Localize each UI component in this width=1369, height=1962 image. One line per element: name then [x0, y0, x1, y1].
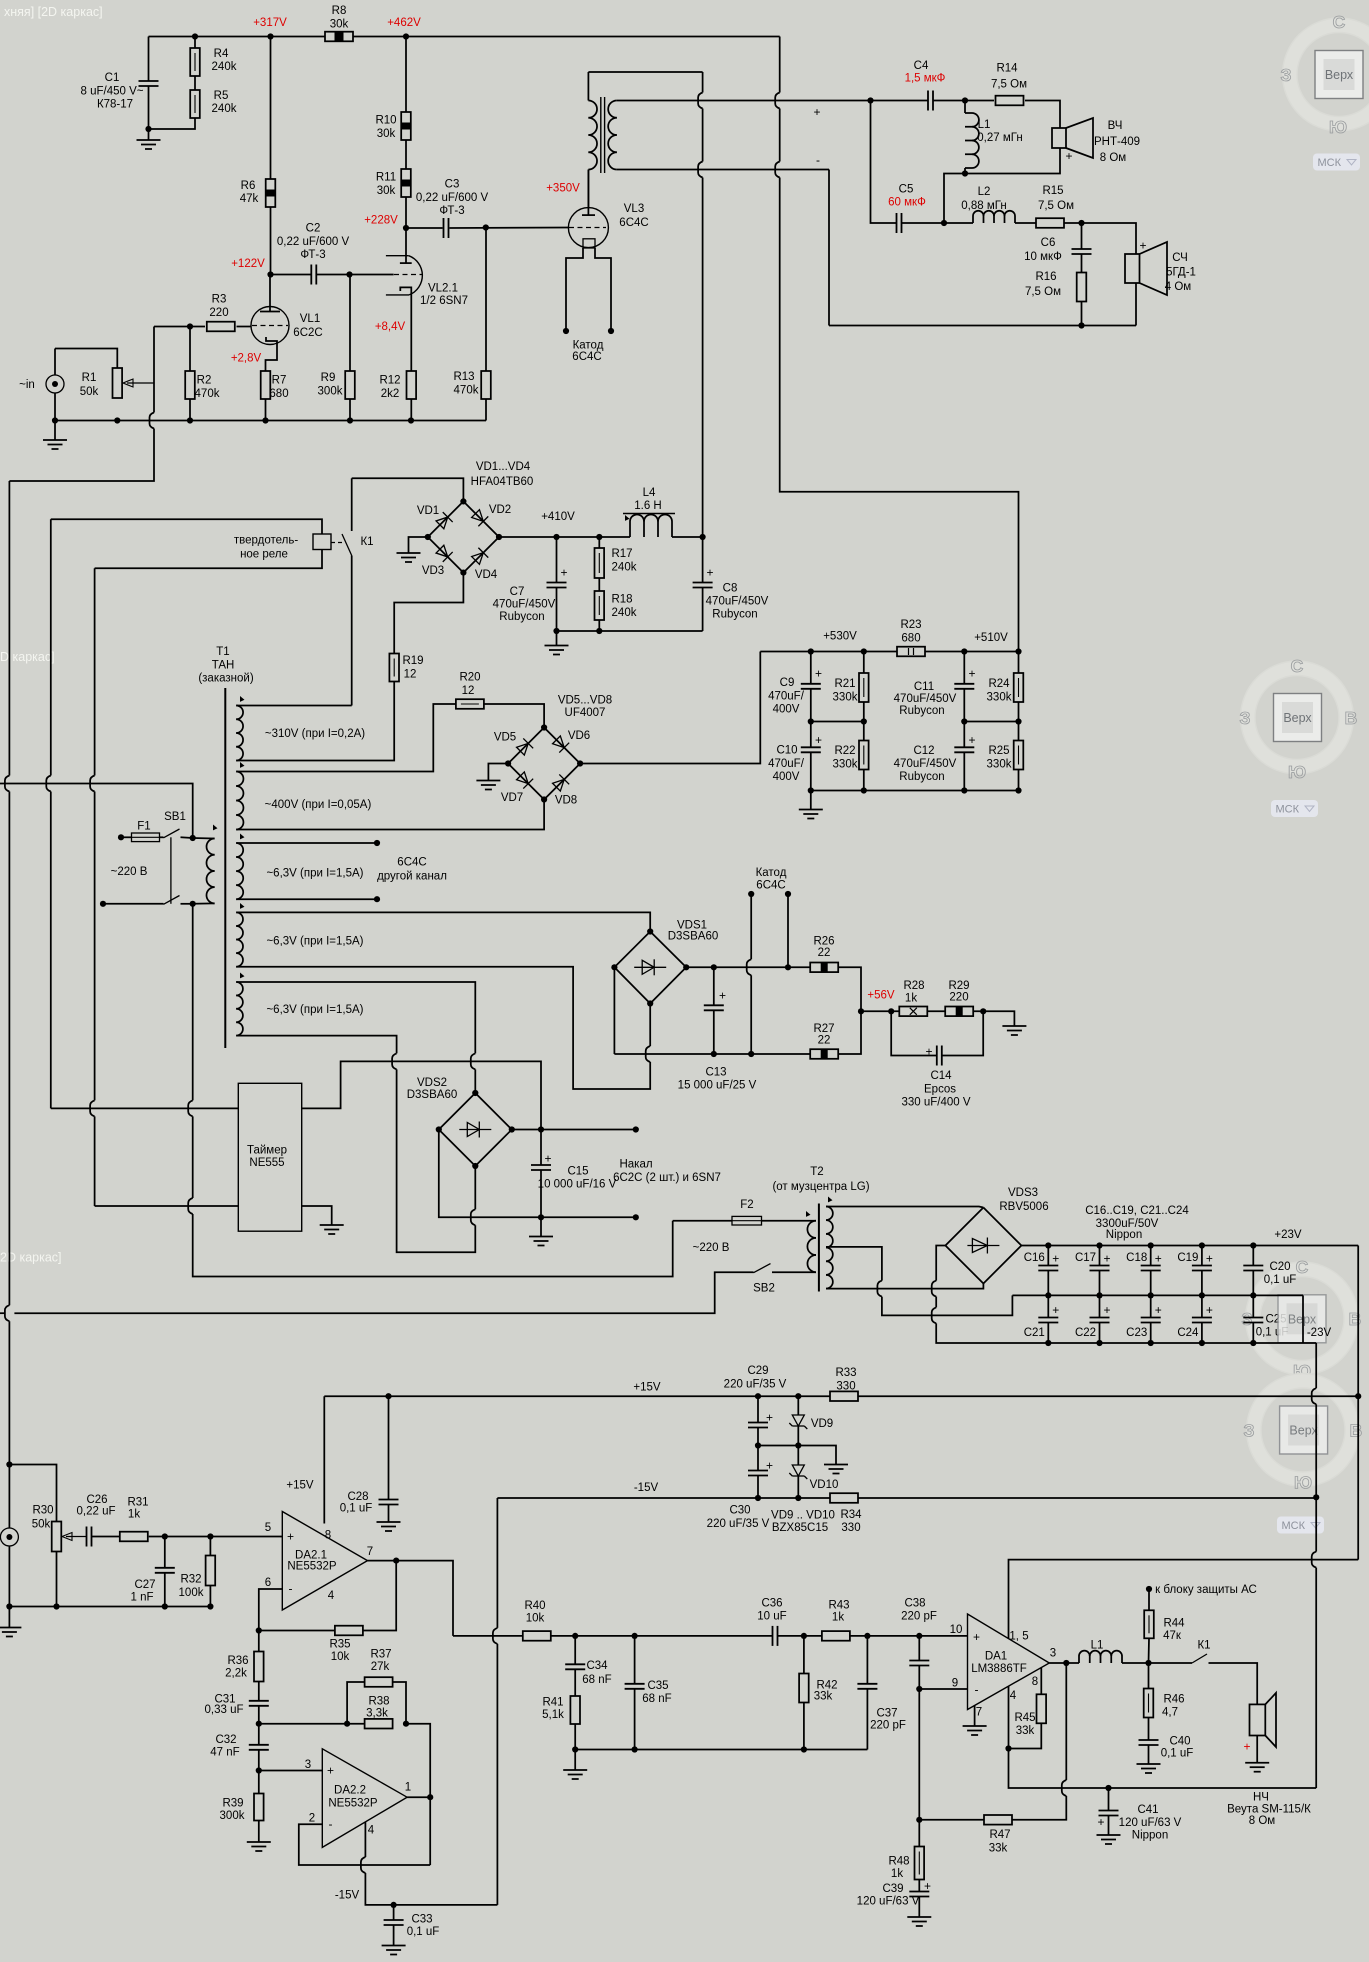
svg-text:220 uF/35 V: 220 uF/35 V [724, 1379, 787, 1391]
resistor R31 [120, 1532, 148, 1542]
wire +410V rail [499, 536, 630, 538]
svg-text:NE555: NE555 [249, 1157, 284, 1169]
wire F1 to SB1 [160, 836, 164, 838]
svg-text:50k: 50k [32, 1519, 51, 1531]
svg-text:VD5...VD8: VD5...VD8 [558, 695, 612, 707]
svg-text:VD4: VD4 [475, 569, 498, 581]
node R18 bottom [596, 628, 602, 634]
resistor R39 [254, 1794, 264, 1821]
tube VL1 anode lead [269, 275, 271, 312]
node +228V [403, 225, 409, 231]
svg-text:+56V: +56V [867, 990, 895, 1002]
wire relay coil top feed [51, 519, 322, 534]
svg-text:З: З [1281, 65, 1292, 85]
wire C40 stem bottom [1148, 1745, 1150, 1764]
node C17 top [1096, 1242, 1102, 1248]
wire VL1 cathode to R7 [266, 345, 278, 372]
svg-text:220 uF/35 V: 220 uF/35 V [707, 1518, 770, 1530]
hop winding5 top over timer wire [471, 1053, 476, 1069]
svg-text:C35: C35 [647, 1680, 668, 1692]
fuse F2 [732, 1216, 762, 1225]
wire R29 to ground [973, 1011, 1014, 1026]
wire timer ground pin [302, 1206, 332, 1225]
svg-text:Верх: Верх [1325, 68, 1354, 82]
wire C16 stem bottom [1047, 1270, 1049, 1295]
bridge VD1-4 edge top-left [428, 501, 464, 537]
node C20 top [1250, 1242, 1256, 1248]
wire C17 stem bottom [1099, 1270, 1101, 1295]
node pin9 [916, 1686, 922, 1692]
wire C23 stem top [1150, 1295, 1152, 1317]
node cathode lead 1 bottom [748, 1051, 754, 1057]
bridge VDS1 inner diode [634, 959, 666, 975]
svg-text:D3SBA60: D3SBA60 [407, 1089, 458, 1101]
wire mains bus from other channel [0, 784, 193, 839]
switch SB2 blade [754, 1264, 771, 1273]
potentiometer R30 body [52, 1522, 62, 1552]
wire timer pin left1 [51, 1107, 239, 1109]
capacitor C4 [928, 91, 933, 111]
wire B+ feeder x=702.6 mid [702, 109, 704, 162]
wire winding5 AC drop [397, 1069, 476, 1252]
wire winding4 AC to bridge bottom [649, 1004, 651, 1047]
svg-text:VD1: VD1 [417, 505, 439, 517]
svg-text:R9: R9 [321, 372, 336, 384]
resistor R16 [1077, 273, 1087, 302]
svg-text:+: + [327, 1764, 334, 1778]
wire filter ground rail [557, 630, 703, 632]
node C15 bottom [538, 1214, 544, 1220]
svg-text:SB2: SB2 [753, 1283, 775, 1295]
svg-text:R23: R23 [900, 619, 921, 631]
svg-text:+410V: +410V [541, 511, 575, 523]
op-amp DA2.2 body [322, 1749, 407, 1848]
hop cathode lead 1 over plus rail [747, 959, 752, 975]
wire R2 bottom lead [189, 399, 191, 421]
resistor R22 [859, 741, 869, 770]
terminal Накал minus [633, 1214, 639, 1220]
tube VL3 cathode left lead [566, 248, 583, 331]
svg-text:6С4С: 6С4С [397, 857, 426, 869]
svg-text:R25: R25 [988, 745, 1009, 757]
svg-text:+350V: +350V [546, 183, 580, 195]
wire +530V rail [760, 651, 897, 653]
capacitor C32 [249, 1745, 269, 1750]
svg-text:R46: R46 [1163, 1694, 1184, 1706]
svg-text:В: В [1345, 708, 1358, 728]
svg-text:ФТ-3: ФТ-3 [300, 249, 325, 261]
svg-text:+: + [1052, 1252, 1059, 1266]
svg-text:C34: C34 [586, 1660, 608, 1672]
resistor R41 [570, 1696, 580, 1724]
hop left sense over SB2 wire [5, 1305, 9, 1321]
wire left sense vertical mid [8, 792, 10, 1306]
svg-text:47к: 47к [1163, 1630, 1182, 1642]
terminal к блоку защиты [1146, 1586, 1152, 1592]
wire winding4 top lead [236, 912, 650, 931]
svg-text:6: 6 [265, 1577, 271, 1589]
svg-text:2k2: 2k2 [381, 388, 400, 400]
resistor R42 [799, 1674, 809, 1703]
T1 winding 6.3V VDS1 [236, 912, 243, 966]
svg-text:22: 22 [818, 947, 831, 959]
wire SB2 to primary bottom [772, 1271, 816, 1273]
svg-text:300k: 300k [220, 1810, 245, 1822]
wire pin9 wire [919, 1688, 967, 1690]
svg-text:10 000 uF/16 V: 10 000 uF/16 V [538, 1179, 617, 1191]
T1 primary polarity arrow [211, 825, 218, 832]
svg-text:С: С [1333, 12, 1346, 32]
wire C20 stem bottom [1252, 1270, 1254, 1295]
node C21 bottom [1045, 1340, 1051, 1346]
wire R25 leads [1018, 722, 1020, 741]
wire R21 leads [863, 652, 865, 674]
wire R1 top lead [55, 349, 117, 369]
resistor R2 [185, 371, 195, 399]
tube VL3 anode plate [582, 214, 595, 216]
resistor R7 [261, 371, 271, 399]
resistor R25 [1014, 741, 1024, 770]
wire C38 to pin9 node [918, 1666, 920, 1690]
node C6 top [1078, 220, 1084, 226]
wire C16 stem top [1047, 1246, 1049, 1266]
hop winding5 AC over timer wire [392, 1053, 397, 1069]
wire DA1 pin4 upper [1008, 1686, 1010, 1749]
inductor L4 [630, 515, 672, 538]
resistor R17 [595, 548, 605, 578]
wire T1 primary bottom lead [193, 902, 215, 904]
svg-text:R19: R19 [402, 655, 423, 667]
hop R47 riser over V- wire [1062, 1780, 1067, 1796]
node R45/pin4 [1005, 1745, 1011, 1751]
wire C19 stem top [1201, 1246, 1203, 1266]
hop VDS3 minus over 0V wire [932, 1307, 937, 1323]
svg-text:10 uF: 10 uF [757, 1611, 786, 1623]
svg-text:+8,4V: +8,4V [375, 321, 406, 333]
svg-text:~6,3V (при I=1,5А): ~6,3V (при I=1,5А) [266, 868, 363, 880]
capacitor C35 [625, 1684, 645, 1689]
svg-text:8 Ом: 8 Ом [1100, 152, 1127, 164]
svg-text:C14: C14 [930, 1070, 952, 1082]
capacitor C28 [379, 1500, 399, 1505]
svg-text:6С4С: 6С4С [756, 880, 785, 892]
wire timer control line A upper [50, 519, 52, 775]
ground C40 [1137, 1764, 1161, 1773]
svg-text:1k: 1k [128, 1509, 140, 1521]
svg-text:240k: 240k [212, 61, 237, 73]
wire C35 stem bottom [634, 1689, 636, 1750]
svg-text:L1: L1 [1091, 1640, 1104, 1652]
svg-text:+: + [1065, 149, 1072, 163]
wire T2 center tap [826, 1247, 882, 1281]
zener diode VD9 [789, 1415, 807, 1429]
capacitor C9 [801, 667, 822, 689]
svg-text:~in: ~in [19, 379, 35, 391]
ground C39 [907, 1917, 931, 1926]
wire bank bottom rail [811, 790, 1019, 792]
wire R35 right lead [363, 1561, 396, 1631]
capacitor C37 [857, 1684, 877, 1689]
wire R10 top lead [405, 37, 407, 113]
node output/R44 [1145, 1660, 1151, 1666]
wire mains N to SB1 [103, 903, 164, 905]
bridge VD1-4 bottom corner [460, 570, 466, 576]
node +23V / R33 [1355, 1393, 1361, 1399]
svg-text:ВЧ: ВЧ [1108, 120, 1123, 132]
svg-text:680: 680 [269, 388, 288, 400]
bridge VD5-8 top corner [541, 724, 547, 730]
svg-text:1: 1 [405, 1782, 411, 1794]
capacitor C7 label [493, 586, 556, 623]
wire cathode lead 2 [787, 894, 789, 967]
svg-text:680: 680 [901, 633, 920, 645]
svg-text:33k: 33k [989, 1843, 1008, 1855]
wire C25 stem top [1252, 1295, 1254, 1317]
svg-text:SB1: SB1 [164, 811, 186, 823]
T1 winding1 polarity arrow [238, 696, 245, 703]
wire C15 stem top [540, 1130, 542, 1166]
svg-text:470uF/450V: 470uF/450V [706, 596, 769, 608]
svg-text:R26: R26 [813, 936, 834, 948]
node C3/R13 junction [483, 224, 489, 230]
speaker НЧ labels [1227, 1792, 1311, 1828]
wire ground stub input rail [54, 421, 56, 441]
svg-text:C36: C36 [761, 1598, 782, 1610]
svg-text:VDS3: VDS3 [1008, 1187, 1038, 1199]
svg-text:8 uF/450 V~: 8 uF/450 V~ [81, 85, 144, 97]
inductor L1 output [1079, 1651, 1122, 1663]
diode VD6 [551, 735, 569, 753]
wire C7 bottom lead [556, 588, 558, 632]
wire DA2.1 pin6 wire [259, 1589, 283, 1631]
svg-text:220: 220 [949, 992, 968, 1004]
wire mid rail right [964, 721, 1018, 723]
svg-text:З: З [1240, 708, 1251, 728]
resistor R24 [1014, 673, 1024, 702]
svg-text:+: + [544, 1152, 551, 1166]
wire R35 left lead [259, 1630, 335, 1632]
svg-text:+: + [973, 1630, 980, 1644]
wire R28 to R29 [927, 1010, 945, 1012]
resistor R10 [401, 112, 411, 140]
svg-text:C29: C29 [747, 1365, 768, 1377]
wire R26 to +56V node [839, 967, 861, 1011]
capacitor C39 [909, 1879, 931, 1897]
node R24/R25 mid [1015, 718, 1021, 724]
svg-text:+: + [1155, 1303, 1162, 1317]
hop center tap over sec bottom [877, 1281, 882, 1297]
svg-text:R16: R16 [1035, 271, 1056, 283]
svg-text:+2,8V: +2,8V [231, 353, 262, 365]
wire timer right power [302, 1061, 541, 1129]
wire C6 top lead [1081, 223, 1083, 249]
wire R47 right lead [1012, 1796, 1066, 1820]
wire R16 bottom lead [1081, 302, 1083, 326]
svg-text:Таймер: Таймер [247, 1145, 287, 1157]
wire feedback to DA2.2 out [406, 1724, 430, 1865]
svg-text:22: 22 [818, 1035, 831, 1047]
wire input jack top lead [54, 349, 56, 376]
hop -23V over V+ wire [1312, 1552, 1317, 1568]
wire R36 to C31 [258, 1682, 260, 1702]
resistor R44 [1144, 1610, 1154, 1638]
svg-text:0,1 uF: 0,1 uF [340, 1503, 373, 1515]
svg-text:+: + [925, 1045, 932, 1059]
svg-text:РНТ-409: РНТ-409 [1094, 136, 1140, 148]
transformer T2 core [818, 1204, 820, 1292]
svg-text:+: + [1103, 1303, 1110, 1317]
svg-text:+15V: +15V [633, 1382, 661, 1394]
svg-text:330k: 330k [833, 759, 858, 771]
node C4 left [867, 97, 873, 103]
svg-text:R40: R40 [524, 1600, 545, 1612]
wire DA2.2 pin3 [259, 1770, 323, 1772]
wire -15V rail [497, 1497, 829, 1499]
svg-text:3: 3 [305, 1759, 311, 1771]
svg-text:C19: C19 [1177, 1252, 1198, 1264]
wire C27 stem top [164, 1537, 166, 1569]
svg-text:F1: F1 [137, 821, 150, 833]
capacitor C21 [1038, 1303, 1059, 1323]
svg-text:+: + [1206, 1252, 1213, 1266]
node R37/R38 right [403, 1721, 409, 1727]
wire K1 to speaker [1209, 1663, 1258, 1704]
ground +56V divider [1002, 1026, 1026, 1035]
svg-text:C2: C2 [306, 223, 321, 235]
wire +462V feeder mid [779, 109, 781, 162]
svg-text:НЧ: НЧ [1253, 1792, 1269, 1804]
svg-text:Epcos: Epcos [924, 1083, 956, 1095]
capacitor C2 [311, 265, 316, 285]
svg-text:ное реле: ное реле [240, 549, 288, 561]
svg-text:+: + [968, 733, 975, 747]
hop mains bus over timer wire2 [188, 1198, 193, 1214]
wire C33 stem bottom [393, 1925, 395, 1946]
svg-text:МСК: МСК [1276, 804, 1300, 816]
tube VL3 anode lead [587, 170, 589, 216]
svg-text:100k: 100k [179, 1587, 204, 1599]
node C19 bottom [1199, 1292, 1205, 1298]
hop -15V feeder over R40 wire [493, 1628, 498, 1644]
wire C28 stem top [388, 1396, 390, 1500]
svg-text:+: + [766, 1411, 773, 1425]
resistor R21 [859, 673, 869, 702]
svg-text:C32: C32 [215, 1734, 236, 1746]
resistor R34 [830, 1493, 858, 1503]
svg-text:1k: 1k [832, 1612, 844, 1624]
svg-text:330: 330 [836, 1381, 855, 1393]
svg-text:27k: 27k [371, 1661, 390, 1673]
wire R11 bottom to +228V node [405, 197, 407, 228]
T1 winding2 polarity arrow [238, 762, 245, 769]
ground zener pair [824, 1465, 848, 1474]
capacitor C3 label [416, 179, 489, 218]
svg-text:7,5 Ом: 7,5 Ом [1038, 200, 1074, 212]
svg-text:C38: C38 [904, 1598, 925, 1610]
potentiometer R30 wiper arrow [62, 1533, 87, 1541]
zener diode VD10 [789, 1465, 807, 1479]
T1 winding 6.3V other channel [236, 843, 243, 899]
svg-text:ФТ-3: ФТ-3 [439, 205, 464, 217]
node C13 bottom [711, 1051, 717, 1057]
svg-text:+510V: +510V [974, 632, 1008, 644]
wire +462V feeder lower [780, 178, 1019, 652]
node analog ground at R32 [207, 1603, 213, 1609]
wire OPT primary top lead [587, 72, 589, 101]
svg-text:-15V: -15V [335, 1890, 360, 1902]
inductor L2 [973, 211, 1015, 223]
T2 secondary polarity arrow [826, 1197, 833, 1204]
svg-text:-15V: -15V [634, 1482, 659, 1494]
capacitor C2 label [277, 223, 350, 262]
terminal Катод 6С4С 2 [785, 891, 791, 897]
svg-text:1.6 H: 1.6 H [634, 500, 662, 512]
resistor R15 [1036, 218, 1064, 228]
wire winding3 bottom lead [236, 898, 377, 900]
svg-text:(от музцентра LG): (от музцентра LG) [772, 1181, 869, 1193]
wire SB2 mains return [0, 1312, 4, 1314]
wire left sense vertical lower [8, 1321, 10, 1464]
wire grid bus [154, 326, 205, 328]
svg-text:МСК: МСК [1282, 1520, 1306, 1532]
wire C8 top lead [702, 537, 704, 583]
svg-text:470uF/450V: 470uF/450V [894, 758, 957, 770]
node C19 top [1199, 1242, 1205, 1248]
switch SB1 link [170, 837, 172, 904]
node cathode lead 2 bottom [785, 964, 791, 970]
node SB1 pole1 [190, 835, 196, 841]
wire C27 stem bottom [164, 1573, 166, 1607]
wire VDS2 minus drop [439, 1130, 636, 1218]
wire +462V feeder upper [779, 37, 781, 93]
svg-text:10 мкФ: 10 мкФ [1024, 251, 1062, 263]
svg-text:R41: R41 [542, 1697, 563, 1709]
wire mid rail 0V [1012, 1294, 1303, 1296]
wire analog ground stub [8, 1607, 10, 1628]
node ground rail at R9 [347, 417, 353, 423]
node C16 top [1045, 1242, 1051, 1248]
wire DA2.1 pin8 to +15V [323, 1396, 325, 1523]
bridge VDS1 top corner [647, 928, 653, 934]
nav ring 1 [1283, 18, 1369, 131]
capacitor C40 [1139, 1740, 1159, 1745]
wire +15V rail right of R33 [859, 1395, 1359, 1397]
node C37 top [864, 1633, 870, 1639]
svg-text:5ГД-1: 5ГД-1 [1166, 267, 1196, 279]
svg-text:R36: R36 [227, 1655, 248, 1667]
wire C1 bottom lead [148, 86, 150, 129]
diode VD8 [551, 774, 569, 792]
wire R32 stem top [209, 1537, 211, 1556]
resistor R46 [1144, 1689, 1154, 1718]
node R22 bottom [861, 787, 867, 793]
wire speaker СЧ bottom lead [1135, 283, 1137, 326]
resistor R38 [365, 1719, 393, 1729]
wire F2 to T2 primary [762, 1220, 817, 1222]
diode VD7 [515, 771, 533, 789]
wire R4-R5 link [194, 76, 196, 90]
speaker НЧ Beyma [1243, 1693, 1276, 1754]
capacitor C8 [693, 566, 714, 588]
svg-text:15 000 uF/25 V: 15 000 uF/25 V [678, 1080, 757, 1092]
svg-text:4: 4 [328, 1590, 335, 1602]
svg-text:33k: 33k [814, 1691, 833, 1703]
wire winding5 top lead a [236, 982, 475, 1053]
node C8 top [700, 534, 706, 540]
svg-text:6С4С: 6С4С [619, 217, 648, 229]
relay K1 actuator link [331, 542, 345, 544]
wire R4 top lead [194, 37, 196, 49]
